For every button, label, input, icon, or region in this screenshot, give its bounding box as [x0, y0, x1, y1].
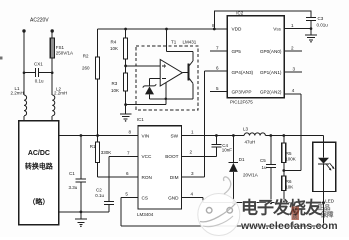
wire LED cathode to rails	[323, 192, 325, 226]
junction R5/rail	[282, 134, 285, 137]
svg-text:0.1u: 0.1u	[95, 193, 104, 198]
capacitor CX1	[23, 68, 54, 77]
wire C3 branch	[214, 11, 311, 29]
svg-text:3: 3	[293, 66, 296, 71]
wire VIN rail	[59, 135, 138, 137]
wire right AC lead upper	[51, 31, 53, 38]
svg-text:8: 8	[129, 130, 132, 135]
svg-text:0.1u: 0.1u	[35, 79, 44, 84]
svg-text:1u: 1u	[262, 165, 268, 170]
resistor R3	[124, 73, 128, 114]
capacitor C2	[104, 202, 114, 212]
watermark stamp circle	[198, 177, 240, 236]
junction Vss/C3	[310, 27, 313, 30]
wire GP0 stub	[284, 50, 302, 52]
svg-text:0.01u: 0.01u	[317, 23, 329, 28]
svg-text:D1: D1	[239, 157, 245, 162]
svg-text:4: 4	[191, 191, 194, 196]
junction C3 branch/top rail	[213, 28, 216, 31]
svg-text:GP5: GP5	[232, 49, 242, 54]
svg-text:5: 5	[216, 86, 219, 91]
resistor R4	[124, 29, 128, 73]
junction C4/SW	[215, 134, 218, 137]
zener reference diode	[143, 84, 157, 99]
svg-text:R5: R5	[286, 151, 292, 156]
svg-text:T1: T1	[171, 40, 177, 45]
svg-text:3.3u: 3.3u	[69, 185, 78, 190]
svg-text:LM3404: LM3404	[137, 212, 154, 217]
junction R2-R1/rail	[96, 134, 99, 137]
ground (C3/Vss)	[305, 35, 317, 43]
transistor Q1 (T1 output)	[182, 61, 193, 99]
junction C1/lower rail	[80, 211, 83, 214]
junction R3/anode wire	[124, 103, 127, 106]
svg-text:GP3/VPP: GP3/VPP	[232, 89, 252, 94]
svg-text:FS1: FS1	[56, 45, 65, 50]
wire CS return rail	[121, 198, 324, 226]
svg-text:R2: R2	[83, 54, 89, 59]
svg-text:GP0(AN0): GP0(AN0)	[260, 49, 282, 54]
wire lower output rail	[59, 211, 109, 213]
svg-text:VDD: VDD	[232, 26, 243, 31]
svg-text:100K: 100K	[285, 157, 296, 162]
AC/DC converter box	[19, 121, 59, 225]
junction R4/top rail	[124, 28, 127, 31]
svg-text:2: 2	[291, 45, 294, 50]
wire T1 cathode drop	[167, 29, 193, 61]
wire left AC lead	[23, 31, 25, 95]
wire GP4 to DIM	[182, 71, 228, 177]
svg-text:330K: 330K	[101, 150, 112, 155]
dashed box T1	[136, 46, 198, 110]
wire GP1 stub	[284, 71, 302, 73]
capacitor C4	[182, 136, 222, 157]
wire L3 to LED rail	[265, 136, 323, 143]
wire anode net to op-amp supply	[126, 83, 166, 105]
LED box	[313, 142, 336, 191]
IC2 PIC12F675	[227, 16, 284, 98]
svg-text:GP1(AN1): GP1(AN1)	[260, 70, 282, 75]
junction R4-R3 divider tap	[124, 65, 127, 68]
wire divider tap to op-amp + input	[126, 65, 161, 67]
svg-text:250V/1A: 250V/1A	[56, 51, 73, 56]
svg-text:（略）: （略）	[28, 197, 49, 206]
junction C5/ground rail	[269, 201, 272, 204]
ground (left rail)	[75, 212, 87, 227]
wire R1 to RON pin	[98, 176, 138, 178]
junction R5-R6 tap	[282, 169, 285, 172]
inductor L3	[244, 133, 265, 136]
junction LED/ground rail	[322, 201, 325, 204]
LED	[318, 142, 334, 191]
capacitor C5	[266, 136, 276, 203]
inductor L2	[52, 95, 55, 116]
wire anode bus (zener to emitter)	[150, 98, 193, 100]
svg-text:10K: 10K	[110, 46, 118, 51]
wire SW output rail	[182, 135, 245, 137]
node AC terminal right	[51, 29, 54, 32]
capacitor C1	[76, 136, 86, 212]
wire VCC to C2	[109, 156, 138, 201]
IC1 LM3404	[138, 126, 182, 209]
fuse FS1	[50, 38, 54, 58]
capacitor C3	[306, 18, 316, 21]
svg-text:转换电路: 转换电路	[25, 162, 54, 171]
stray mark at left edge	[0, 57, 2, 60]
svg-text:6: 6	[216, 66, 219, 71]
junction R6/ground rail	[282, 201, 285, 204]
resistor R2	[96, 29, 100, 136]
svg-text:PIC12F675: PIC12F675	[230, 99, 253, 104]
svg-text:2.2mH: 2.2mH	[11, 91, 24, 96]
junction D1/ground rail	[232, 201, 235, 204]
svg-text:IC1: IC1	[137, 117, 145, 122]
svg-text:20V/1A: 20V/1A	[243, 172, 258, 177]
wire Vss pin1 to ground node	[284, 28, 311, 30]
svg-text:IC2: IC2	[236, 11, 244, 16]
svg-text:GP4(AN3): GP4(AN3)	[232, 70, 254, 75]
svg-text:VCC: VCC	[142, 154, 153, 159]
svg-text:RON: RON	[142, 175, 152, 180]
svg-text:1: 1	[291, 23, 294, 28]
svg-text:1: 1	[191, 130, 194, 135]
watermark red seal 2	[318, 203, 335, 219]
svg-text:www.elecfans.com: www.elecfans.com	[240, 220, 338, 232]
svg-text:CX1: CX1	[34, 62, 43, 67]
svg-text:电子发烧友: 电子发烧友	[241, 198, 322, 218]
junction T1 cathode/top rail	[165, 28, 168, 31]
wire C3 to ground	[310, 21, 312, 35]
svg-text:3: 3	[191, 171, 194, 176]
wire L1 to box	[23, 116, 25, 121]
svg-text:10K: 10K	[285, 185, 293, 190]
ground (R3)	[120, 114, 131, 122]
junction C5/rail	[269, 134, 272, 137]
svg-text:CS: CS	[142, 195, 149, 200]
svg-text:8: 8	[212, 23, 215, 28]
resistor R1	[96, 136, 100, 178]
svg-text:AC/DC: AC/DC	[28, 150, 50, 157]
svg-text:260: 260	[82, 66, 90, 71]
wire L2 to box	[51, 116, 53, 121]
junction D1/SW	[232, 134, 235, 137]
svg-text:R3: R3	[112, 81, 118, 86]
svg-text:SW: SW	[170, 133, 178, 138]
svg-text:BOOT: BOOT	[165, 154, 178, 159]
svg-text:C1: C1	[69, 171, 75, 176]
diode D1	[229, 136, 239, 203]
svg-text:47uH: 47uH	[245, 140, 256, 145]
wire ground rail (right)	[203, 202, 324, 204]
svg-text:2.2mH: 2.2mH	[54, 91, 67, 96]
wire VDD pin lead	[214, 28, 227, 30]
svg-text:GND: GND	[168, 195, 179, 200]
svg-text:LM431: LM431	[183, 40, 197, 45]
svg-text:保障: 保障	[320, 210, 335, 219]
svg-text:LED: LED	[325, 198, 335, 203]
wire GND pin to ground rail	[182, 198, 203, 203]
svg-text:5: 5	[125, 192, 128, 197]
svg-text:GP2(AN2): GP2(AN2)	[260, 89, 282, 94]
wire GP3/VPP stub	[210, 90, 227, 92]
svg-text:优: 优	[292, 207, 298, 215]
svg-text:7: 7	[216, 46, 219, 51]
resistor R5	[282, 136, 286, 176]
svg-text:C2: C2	[96, 188, 102, 193]
op-amp U1	[160, 60, 182, 87]
svg-text:10nF: 10nF	[222, 148, 233, 153]
svg-text:R1: R1	[90, 144, 96, 149]
svg-text:2: 2	[190, 150, 193, 155]
svg-text:R4: R4	[111, 40, 117, 45]
wire op-amp - input to reference zener	[150, 79, 161, 86]
svg-text:正品: 正品	[318, 203, 332, 212]
svg-text:C3: C3	[318, 16, 324, 21]
node AC terminal left	[22, 29, 25, 32]
svg-text:4: 4	[292, 88, 295, 93]
inductor L1	[24, 95, 27, 116]
wire top rail (VDD net)	[98, 28, 228, 30]
wire fuse to coil	[51, 58, 53, 95]
wire GP5 stub	[210, 50, 227, 52]
svg-text:C5: C5	[260, 158, 266, 163]
junction C1/rail	[80, 134, 83, 137]
svg-text:VSS: VSS	[273, 26, 281, 31]
svg-text:7: 7	[127, 151, 130, 156]
svg-text:VIN: VIN	[142, 133, 150, 138]
junction op-amp supply/emitter wire	[165, 98, 168, 101]
svg-text:DIM: DIM	[170, 175, 179, 180]
svg-text:10K: 10K	[111, 88, 119, 93]
svg-text:AC220V: AC220V	[30, 18, 49, 24]
svg-text:6: 6	[126, 171, 129, 176]
svg-text:L3: L3	[243, 127, 249, 132]
wire GP2 to R5/R6 tap	[284, 94, 301, 171]
watermark red seal 1	[291, 207, 299, 221]
resistor R6	[282, 176, 286, 203]
svg-text:R6: R6	[286, 179, 292, 184]
